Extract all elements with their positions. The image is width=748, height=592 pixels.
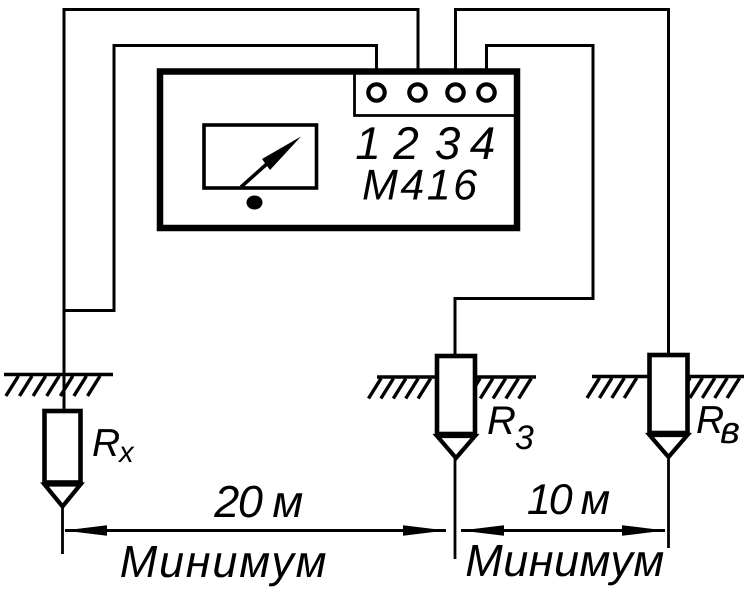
svg-text:М416: М416 (362, 162, 480, 210)
terminal 4 (478, 84, 494, 100)
meter needle (241, 162, 269, 187)
meter scale window (204, 125, 317, 188)
terminal 2 (409, 84, 425, 100)
wire terminal 4 to electrode R3 (455, 46, 593, 358)
electrode Rx (45, 411, 81, 507)
electrode R3 (437, 356, 475, 458)
wire terminal 2 to electrode Rx (outer left loop) (64, 10, 418, 412)
ground surface right (587, 377, 744, 399)
extension line below Rв (667, 457, 670, 548)
svg-text:Минимум: Минимум (120, 536, 329, 587)
wire terminal 3 to electrode Rв (outer right loop) (456, 10, 669, 357)
meter M416 body (160, 72, 517, 229)
electrode Rв (650, 355, 688, 457)
meter adjust knob dot (247, 196, 263, 210)
svg-text:10 м: 10 м (527, 476, 610, 524)
dimension line 20 м (64, 525, 446, 536)
ground surface middle (369, 377, 537, 399)
ground surface left (4, 375, 113, 397)
terminal 1 (368, 84, 384, 100)
svg-text:20 м: 20 м (213, 476, 302, 527)
extension line below R3 (454, 458, 457, 559)
svg-text:Минимум: Минимум (465, 535, 665, 586)
extension line below Rx (61, 506, 64, 554)
dimension line 10 м (461, 525, 665, 536)
wire terminal 1 jumper to Rx wire (64, 46, 377, 311)
terminal 3 (447, 84, 463, 100)
meter terminal strip (355, 72, 518, 116)
